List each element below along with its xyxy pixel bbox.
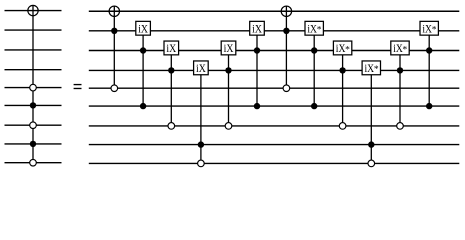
svg-text:iX: iX <box>166 43 176 55</box>
svg-text:*: * <box>432 26 437 36</box>
svg-text:iX: iX <box>138 23 148 35</box>
svg-text:*: * <box>317 26 322 36</box>
svg-text:iX: iX <box>196 63 206 75</box>
svg-text:*: * <box>374 65 379 75</box>
svg-text:*: * <box>403 45 408 55</box>
svg-text:*: * <box>345 45 350 55</box>
svg-text:iX: iX <box>252 23 262 35</box>
svg-text:iX: iX <box>224 43 234 55</box>
